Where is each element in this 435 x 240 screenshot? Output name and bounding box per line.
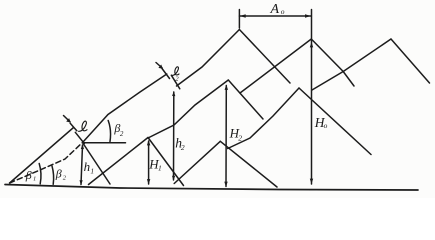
extension tick above P1 <box>238 10 240 29</box>
tick T4 (start of slope3) <box>171 75 180 89</box>
tick T2 (start of slope2) <box>75 132 84 143</box>
label H2 <box>229 126 243 143</box>
label h2 <box>175 136 185 152</box>
arrow leader l1 <box>64 116 71 122</box>
beta2 arc at vertex <box>52 166 54 184</box>
svg-text:2: 2 <box>181 143 185 152</box>
beta1 arc <box>39 164 41 184</box>
wire dashed chord (angle beta2) <box>10 142 83 183</box>
arrow leader l2 <box>156 63 162 69</box>
svg-text:A: A <box>270 2 280 17</box>
wire P2 right flank <box>311 39 354 86</box>
svg-text:2: 2 <box>238 133 242 142</box>
dimension A0 <box>239 15 311 17</box>
wire P5 right flank <box>299 88 371 155</box>
wire P6 left flank <box>89 138 149 185</box>
wire slope3 (left flank of peak P1) <box>177 30 240 87</box>
label H1 <box>148 156 161 172</box>
wire P1 right flank <box>239 30 290 84</box>
dimension H1 <box>148 141 150 184</box>
wire P3 right flank <box>391 39 430 83</box>
svg-text:β: β <box>55 167 62 181</box>
dimension H0 vertical <box>311 10 313 185</box>
svg-text:β: β <box>25 168 32 182</box>
wire P4 right flank <box>228 80 263 119</box>
svg-text:o: o <box>281 7 285 16</box>
wire slope1 (flank at angle beta1) <box>10 128 74 184</box>
svg-text:o: o <box>324 121 328 130</box>
wire P7 left flank <box>174 141 220 183</box>
tick T1 (end of slope1) <box>70 123 77 131</box>
svg-text:h: h <box>84 159 91 174</box>
wire P4 left flank <box>148 80 228 138</box>
wire slope2 <box>83 74 167 142</box>
wire P7 right flank <box>220 141 277 187</box>
dimension H2 <box>225 86 227 187</box>
label beta2 upper <box>113 121 124 138</box>
label beta2 lower <box>55 167 67 182</box>
svg-text:2: 2 <box>63 175 67 182</box>
svg-text:2: 2 <box>120 130 124 138</box>
dimension h2 <box>173 92 175 180</box>
wire P2 left flank <box>240 39 311 93</box>
label ell 1 (script) <box>79 121 87 131</box>
baseline <box>5 185 418 191</box>
beta2 arc at J1 <box>108 121 110 142</box>
label ell2 subscript 2 <box>175 76 179 83</box>
svg-text:1: 1 <box>33 176 36 183</box>
label H0 <box>314 115 328 130</box>
beta2 horizontal reference at J1 <box>84 142 126 144</box>
wire J1 right flank <box>83 143 111 185</box>
label h1 <box>84 159 95 175</box>
label A0 <box>270 2 285 17</box>
svg-text:2: 2 <box>175 76 179 83</box>
svg-text:1: 1 <box>158 164 162 173</box>
wire P3 left flank <box>312 39 391 90</box>
wire P5 left flank <box>228 88 299 149</box>
svg-text:1: 1 <box>90 166 94 175</box>
tick T3 (end of slope2) <box>162 69 170 79</box>
wire P6 right flank <box>148 138 184 186</box>
dimension h1 <box>81 145 83 185</box>
label ell 2 (script) <box>172 67 179 76</box>
label beta1 <box>25 168 36 183</box>
